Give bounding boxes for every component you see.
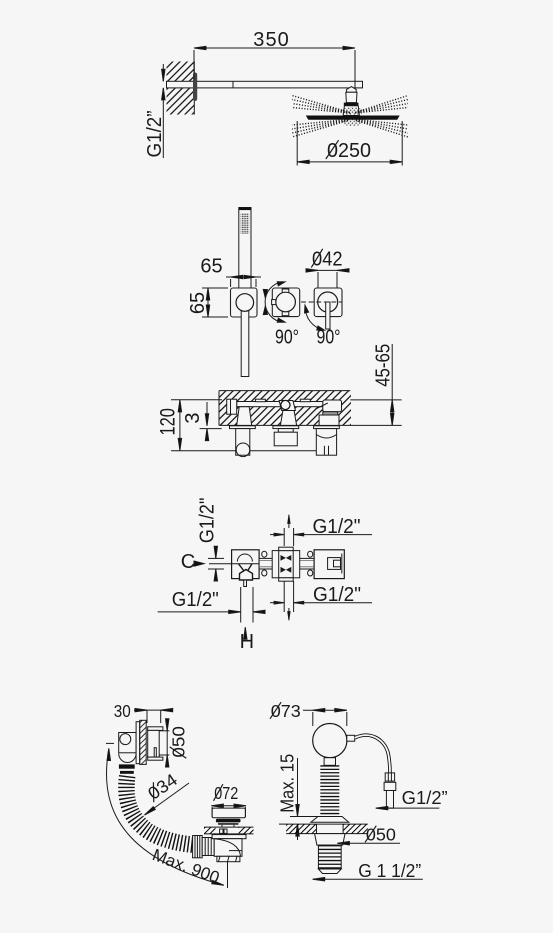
- svg-text:G1/2": G1/2": [313, 516, 361, 538]
- waste body below deck: [315, 834, 345, 874]
- dimension Max. 900 (arc): [106, 743, 228, 888]
- wall section (hatched): [167, 62, 195, 115]
- bellows riser: [324, 758, 335, 817]
- plate 3 (stop valve with lever): [314, 288, 342, 329]
- dimension D73: [303, 709, 347, 727]
- spray pattern: [292, 96, 408, 138]
- plate 2 (diverter): [272, 288, 300, 317]
- label G1/2" (cable): [376, 806, 440, 809]
- middle block: [272, 547, 300, 581]
- svg-text:G1/2”: G1/2”: [144, 111, 166, 158]
- diverter knob below wall: [274, 429, 297, 446]
- dimension Max. 15: [279, 758, 318, 840]
- shower arm pipe: [167, 81, 363, 88]
- dimension 350: [194, 46, 355, 90]
- svg-text:3: 3: [182, 412, 204, 423]
- dimension D50: [159, 719, 169, 767]
- svg-text:G1/2": G1/2": [172, 589, 219, 611]
- hand shower wand: [239, 208, 251, 303]
- dimension 120: [171, 400, 337, 451]
- cable end fitting G1/2": [384, 773, 396, 808]
- dimension G1/2" bottom outlet: [158, 587, 265, 623]
- drain fitting (left diagram): [204, 808, 254, 862]
- dimension 65 (plate width): [226, 275, 261, 287]
- dimension D34 (leader): [144, 783, 189, 816]
- dimension C: [194, 546, 224, 581]
- dimension 65 vertical: [202, 288, 228, 317]
- svg-text:G1/2": G1/2": [313, 584, 361, 606]
- holder unit below wall: [236, 429, 250, 457]
- rotation arc plate 3: [303, 305, 325, 332]
- dimension G1/2" top port: [270, 515, 372, 547]
- svg-text:G 1 1/2”: G 1 1/2”: [358, 861, 421, 881]
- connecting pipe: [259, 558, 342, 569]
- union nuts: [262, 551, 313, 576]
- svg-text:H: H: [240, 631, 254, 653]
- dimension G1/2" bottom port: [270, 581, 372, 621]
- flexible hose: [126, 776, 196, 845]
- svg-text:65: 65: [187, 292, 209, 314]
- hose nut at drain: [193, 836, 215, 858]
- label G 1 1/2": [313, 878, 423, 881]
- rotation arrows plate 2: [263, 280, 286, 324]
- wall band (hatched): [219, 391, 353, 426]
- lever hub below wall: [316, 429, 336, 456]
- plate 1 (hand shower holder): [231, 288, 258, 377]
- overflow fitting: [119, 720, 163, 774]
- svg-text:45-65: 45-65: [373, 344, 395, 387]
- dimension D250: [297, 121, 402, 166]
- svg-text:Max. 15: Max. 15: [278, 754, 298, 813]
- svg-text:G1/2”: G1/2”: [402, 788, 448, 808]
- svg-text:120: 120: [157, 408, 180, 436]
- label H: [244, 627, 247, 639]
- dimension 3 (plate thickness): [200, 402, 222, 441]
- svg-text:0250: 0250: [327, 140, 371, 162]
- escutcheon plates below wall: [230, 426, 340, 429]
- bowden cable: [355, 735, 390, 773]
- svg-text:65: 65: [200, 256, 222, 278]
- dimension D72: [211, 804, 246, 817]
- deck (hatched): [286, 824, 368, 834]
- svg-text:30: 30: [114, 701, 131, 721]
- valve body left block: [209, 550, 259, 587]
- dimension D42: [306, 269, 349, 291]
- escutcheon cone: [311, 817, 349, 823]
- svg-text:350: 350: [253, 29, 289, 51]
- svg-text:90°: 90°: [275, 327, 299, 349]
- control knob: [313, 724, 355, 758]
- label D50 (tailpiece): [337, 842, 400, 845]
- shower head disc: [306, 116, 400, 120]
- dashed axis line: [301, 301, 343, 303]
- svg-text:C: C: [181, 551, 195, 573]
- wall flange of arm: [193, 73, 197, 102]
- dimension G1/2" (arm thread): [162, 64, 165, 158]
- dimension 45-65: [350, 344, 401, 425]
- head connector: [343, 87, 359, 116]
- svg-text:G1/2": G1/2": [197, 498, 219, 544]
- right block: [314, 550, 344, 579]
- dimension 30: [134, 708, 173, 723]
- svg-text:90°: 90°: [317, 327, 341, 349]
- embedded valve body: [227, 399, 342, 425]
